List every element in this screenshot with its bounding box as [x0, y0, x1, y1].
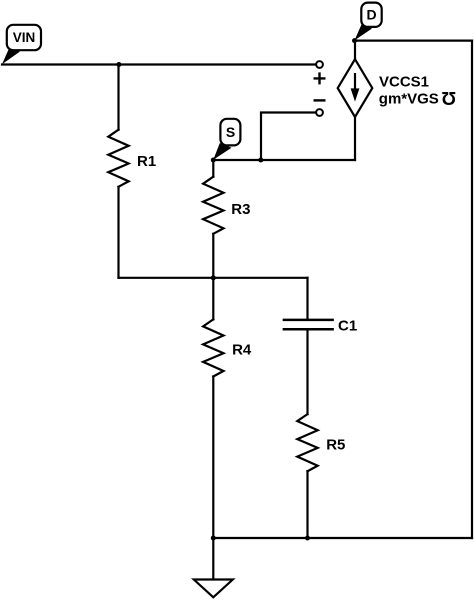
svg-text:R1: R1 — [137, 153, 156, 170]
label: minus sign — [314, 99, 326, 101]
vccs VCCS1 diamond body — [338, 59, 373, 117]
ground symbol — [194, 580, 233, 598]
svg-text:Ω: Ω — [442, 88, 456, 108]
wire: R5 bottom lead — [306, 471, 308, 538]
junction: middle node — [211, 275, 216, 280]
resistor R5 — [297, 414, 317, 471]
wire: R3 top lead — [212, 160, 214, 177]
wire: R4 top lead — [212, 278, 214, 320]
net label D — [355, 3, 382, 41]
wire: C1 top lead — [306, 278, 308, 319]
junction: VIN/R1 node — [116, 62, 121, 67]
svg-text:D: D — [367, 7, 377, 23]
svg-text:R4: R4 — [232, 342, 252, 359]
net label S — [213, 119, 240, 160]
resistor R3 — [203, 177, 223, 234]
vccs arrow — [354, 73, 356, 89]
svg-text:R3: R3 — [231, 201, 250, 218]
terminal: plus port circle — [316, 61, 323, 68]
wire: S node horizontal rail — [213, 159, 355, 161]
svg-text:S: S — [226, 124, 235, 140]
resistor R1 — [108, 130, 128, 187]
wire: minus branch — [261, 113, 316, 161]
wire: middle horizontal rail — [119, 277, 308, 279]
wire: VCCS top lead — [354, 41, 356, 60]
capacitor C1 — [284, 320, 333, 329]
junction: R5 bottom node — [305, 536, 310, 541]
wire: R1 top lead — [117, 65, 119, 130]
junction: D node — [352, 38, 357, 43]
wire: VIN input rail — [2, 63, 316, 65]
svg-text:C1: C1 — [338, 318, 357, 335]
wire: R4 bottom lead — [212, 377, 214, 539]
junction: S node — [211, 158, 216, 163]
net label VIN — [2, 25, 41, 65]
junction: ground node — [211, 536, 216, 541]
svg-text:gm*VGS: gm*VGS — [379, 91, 439, 108]
wire: VCCS bottom lead — [354, 117, 356, 160]
svg-text:VCCS1: VCCS1 — [379, 73, 429, 90]
wire: R3 bottom lead — [212, 234, 214, 278]
wire: right return rail — [471, 41, 473, 538]
terminal: minus port circle — [316, 109, 323, 116]
wire: bottom ground rail — [213, 537, 472, 539]
wire: R1 bottom lead — [117, 187, 119, 278]
resistor R4 — [203, 319, 223, 376]
wire: ground stub — [212, 538, 214, 580]
label: plus sign — [314, 72, 326, 84]
wire: C1 bottom lead — [306, 330, 308, 414]
wire: top right rail (D to right rail) — [355, 39, 473, 41]
junction: minus branch tap — [258, 158, 263, 163]
svg-text:VIN: VIN — [13, 30, 36, 45]
svg-text:R5: R5 — [326, 437, 345, 454]
